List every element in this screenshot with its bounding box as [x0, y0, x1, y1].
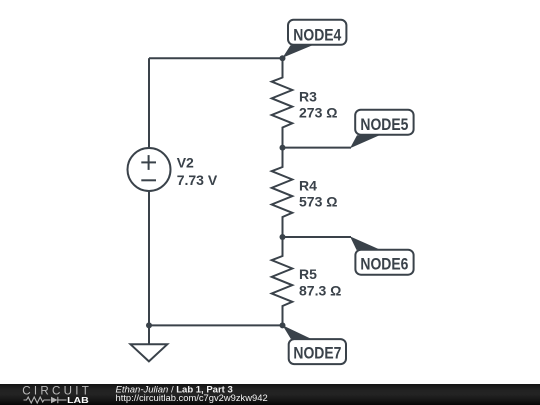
svg-text:R3: R3	[299, 88, 317, 104]
svg-text:R5: R5	[299, 266, 317, 282]
svg-text:http://circuitlab.com/c7gv2w9z: http://circuitlab.com/c7gv2w9zkw942	[116, 392, 268, 403]
svg-text:NODE4: NODE4	[293, 26, 342, 44]
svg-text:R4: R4	[299, 177, 317, 193]
svg-text:87.3 Ω: 87.3 Ω	[299, 282, 341, 298]
svg-text:V2: V2	[177, 155, 194, 171]
svg-text:273 Ω: 273 Ω	[299, 105, 337, 121]
svg-text:LAB: LAB	[67, 395, 89, 405]
svg-text:573 Ω: 573 Ω	[299, 194, 337, 210]
svg-text:NODE7: NODE7	[293, 345, 341, 363]
svg-text:7.73 V: 7.73 V	[177, 172, 218, 188]
svg-text:NODE5: NODE5	[360, 116, 408, 134]
svg-text:NODE6: NODE6	[360, 255, 408, 273]
